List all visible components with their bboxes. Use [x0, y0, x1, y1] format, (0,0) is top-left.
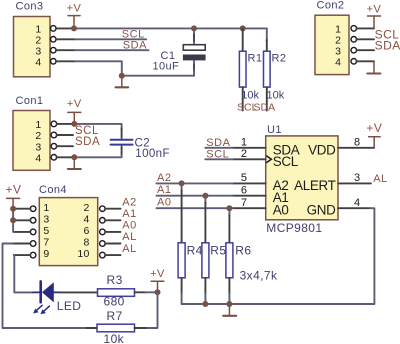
Con2 pin 2 — [351, 37, 374, 43]
connector Con3 — [14, 1, 51, 77]
Con4 pin 8 — [100, 241, 121, 247]
junction node R5 bottom on GND rail — [202, 301, 208, 307]
Con4 pin 2 — [100, 206, 121, 212]
ground symbol under Con3 — [116, 76, 129, 88]
svg-text:AL: AL — [122, 243, 136, 255]
svg-text:4: 4 — [335, 57, 341, 69]
svg-text:A0: A0 — [273, 203, 289, 218]
svg-text:R5: R5 — [210, 243, 226, 257]
svg-text:2: 2 — [83, 202, 89, 214]
wire Con3 pin4 to ground junction — [75, 61, 122, 75]
Con4 pin 9 — [14, 252, 36, 258]
U1 SCL clock chevron — [266, 156, 271, 163]
net A0 wire to U1 pin7 — [157, 197, 233, 209]
wire Con4 pin9 to LED — [14, 255, 33, 292]
Con2 pin 1 — [351, 26, 374, 32]
junction node Con4 pin1 — [10, 206, 16, 212]
net A2 wire to U1 pin5 — [157, 172, 233, 184]
svg-text:Con3: Con3 — [16, 1, 44, 13]
svg-text:10k: 10k — [241, 90, 259, 102]
resistor R7 — [87, 324, 146, 332]
svg-text:LED: LED — [57, 299, 82, 313]
Con3 pin 3 — [51, 47, 76, 53]
svg-text:MCP9801: MCP9801 — [266, 221, 322, 235]
svg-text:ALERT: ALERT — [294, 178, 336, 193]
svg-text:10k: 10k — [104, 332, 125, 344]
svg-text:GND: GND — [307, 203, 336, 218]
Con4 pin 3 — [13, 218, 36, 224]
svg-text:4: 4 — [354, 197, 360, 209]
U1 pin 6 stub — [233, 195, 266, 197]
svg-text:3: 3 — [354, 172, 360, 184]
LED — [33, 281, 62, 302]
U1 pin 4 GND stub — [338, 207, 370, 209]
resistor R2 — [264, 28, 271, 110]
+V supply symbol at R3 — [150, 268, 165, 292]
junction node at Con1 pin1 — [71, 121, 77, 127]
svg-text:5: 5 — [43, 225, 49, 237]
LED light arrow 1 — [33, 305, 42, 313]
wire +V column joining Con4 pins 1,3,5 — [12, 209, 15, 232]
Con4 pin 7 — [13, 241, 36, 247]
resistor R1 — [239, 28, 246, 110]
svg-text:+V: +V — [150, 268, 165, 280]
junction node R6 tap on net A0 — [226, 205, 232, 211]
junction node GND under Con3 — [119, 73, 125, 79]
U1 pin 1 stub — [233, 147, 266, 149]
+V supply symbol at Con2 pin 1 — [367, 3, 382, 28]
net label SDA on Con3 pin3 wire — [75, 39, 148, 51]
junction node C1 tap on +V rail — [191, 25, 197, 31]
capacitor C2 — [111, 129, 133, 154]
svg-text:R1: R1 — [248, 53, 263, 65]
svg-text:+V: +V — [67, 3, 82, 15]
Con4 pin 6 — [100, 229, 121, 235]
svg-text:U1: U1 — [267, 124, 282, 136]
U1 pin 3 ALERT stub — [338, 182, 371, 184]
svg-text:Con1: Con1 — [16, 95, 44, 107]
svg-text:AL: AL — [122, 231, 136, 243]
svg-text:A0: A0 — [157, 197, 171, 209]
ground symbol at bottom rail — [223, 304, 236, 316]
Con4 pin 5 — [14, 229, 36, 235]
svg-text:1: 1 — [241, 137, 247, 149]
Con1 pin 1 — [51, 121, 74, 127]
svg-text:6: 6 — [83, 225, 89, 237]
svg-text:7: 7 — [43, 237, 49, 249]
net label SCL on Con3 pin2 wire — [75, 28, 146, 40]
svg-text:680: 680 — [104, 295, 125, 309]
wire ground junction to C1 bottom — [122, 75, 194, 77]
svg-text:5: 5 — [241, 172, 247, 184]
svg-text:+V: +V — [67, 98, 82, 110]
junction node R1 tap on +V rail — [240, 25, 246, 31]
svg-text:VDD: VDD — [308, 142, 336, 157]
junction node R3 +V — [155, 289, 161, 295]
svg-text:A2: A2 — [122, 196, 136, 208]
svg-text:10k: 10k — [267, 90, 285, 102]
svg-text:R2: R2 — [272, 53, 287, 65]
Con1 pin 4 — [51, 155, 74, 161]
U1 pin 8 VDD stub — [338, 147, 374, 149]
resistor R6 — [226, 208, 233, 304]
connector Con4 — [39, 184, 98, 266]
svg-text:R6: R6 — [235, 243, 251, 257]
junction node Con4 pin3 — [10, 217, 16, 223]
svg-text:R3: R3 — [107, 273, 123, 287]
capacitor C1 — [183, 28, 206, 75]
svg-text:+V: +V — [366, 121, 382, 135]
U1 pin 7 stub — [233, 207, 266, 209]
svg-text:8: 8 — [354, 137, 360, 149]
Con2 pin 4 — [351, 59, 374, 65]
Con1 pin 3 — [51, 143, 73, 149]
svg-text:7: 7 — [241, 197, 247, 209]
svg-text:+V: +V — [5, 183, 21, 197]
svg-text:SDA: SDA — [254, 102, 276, 114]
junction node R4 tap on net A2 — [179, 180, 185, 186]
svg-text:10uF: 10uF — [153, 61, 180, 73]
connector Con1 — [13, 95, 50, 170]
svg-text:Con4: Con4 — [39, 184, 67, 196]
svg-text:10: 10 — [77, 248, 89, 260]
svg-text:4: 4 — [35, 57, 41, 69]
svg-text:4: 4 — [83, 213, 89, 225]
junction node R6 bottom on GND rail — [226, 301, 232, 307]
wire C2 bottom to Con1 pin4 — [74, 153, 121, 157]
Con3 pin 4 — [51, 59, 76, 65]
Con3 pin 2 — [51, 37, 76, 43]
LED light arrow 2 — [40, 306, 49, 314]
wire Con4 pin7 to R7 — [3, 244, 98, 329]
+V supply symbol at Con1 pin 1 — [67, 98, 82, 124]
resistor R3 — [62, 289, 158, 297]
svg-text:R4: R4 — [187, 243, 203, 257]
IC U1 MCP9801 body — [266, 124, 338, 220]
net label SCL at U1 pin2 — [205, 149, 233, 161]
svg-text:Con2: Con2 — [317, 0, 345, 11]
+V supply symbol at Con4 — [5, 183, 21, 209]
Con1 pin 2 — [51, 132, 73, 138]
Con4 pin 1 — [13, 206, 36, 212]
ground symbol at Con1 pin 4 — [68, 157, 81, 169]
svg-text:3: 3 — [43, 213, 49, 225]
svg-text:A1: A1 — [122, 208, 136, 220]
+V supply symbol at U1 pin 8 — [366, 121, 382, 148]
net A1 wire to U1 pin6 — [157, 184, 233, 196]
U1 pin 5 stub — [233, 182, 266, 184]
svg-text:3x4,7k: 3x4,7k — [240, 268, 278, 282]
wire +V rail top — [74, 27, 267, 29]
svg-text:9: 9 — [43, 248, 49, 260]
resistor R4 — [178, 183, 185, 304]
svg-text:2: 2 — [241, 148, 247, 160]
svg-text:A1: A1 — [157, 184, 171, 196]
wire U1 GND pin 4 to bottom rail — [182, 208, 375, 304]
svg-text:SDA: SDA — [375, 38, 400, 52]
junction node at Con1 pin4 — [71, 154, 77, 160]
svg-text:AL: AL — [373, 173, 387, 185]
ground symbol at Con2 pin 4 — [367, 61, 380, 73]
connector Con2 — [315, 0, 349, 75]
svg-text:6: 6 — [241, 185, 247, 197]
wire Con1 pin1 to C2 top — [74, 124, 121, 130]
svg-text:R7: R7 — [107, 309, 123, 323]
svg-text:+V: +V — [367, 3, 382, 15]
net label SDA at U1 pin1 — [205, 137, 233, 149]
svg-text:SCL: SCL — [273, 154, 298, 169]
svg-text:A2: A2 — [157, 172, 171, 184]
svg-text:SCL: SCL — [75, 125, 99, 137]
Con3 pin 1 — [51, 26, 75, 32]
svg-text:4: 4 — [35, 153, 41, 165]
junction node R5 tap on net A1 — [202, 193, 208, 199]
Con4 pin 4 — [100, 218, 121, 224]
svg-text:1: 1 — [43, 202, 49, 214]
junction node Con3 pin1 +V — [71, 25, 77, 31]
wire R3 junction down to R7 right side — [145, 292, 158, 328]
svg-text:100nF: 100nF — [135, 148, 170, 160]
Con4 pin 10 — [100, 252, 121, 258]
svg-text:SDA: SDA — [75, 136, 100, 148]
resistor R5 — [202, 196, 209, 304]
U1 pin 2 stub — [233, 158, 266, 160]
svg-text:8: 8 — [83, 237, 89, 249]
svg-text:A0: A0 — [122, 220, 136, 232]
+V supply symbol at Con3 pin 1 — [67, 3, 82, 29]
Con2 pin 3 — [351, 47, 374, 53]
svg-text:2: 2 — [35, 130, 41, 142]
